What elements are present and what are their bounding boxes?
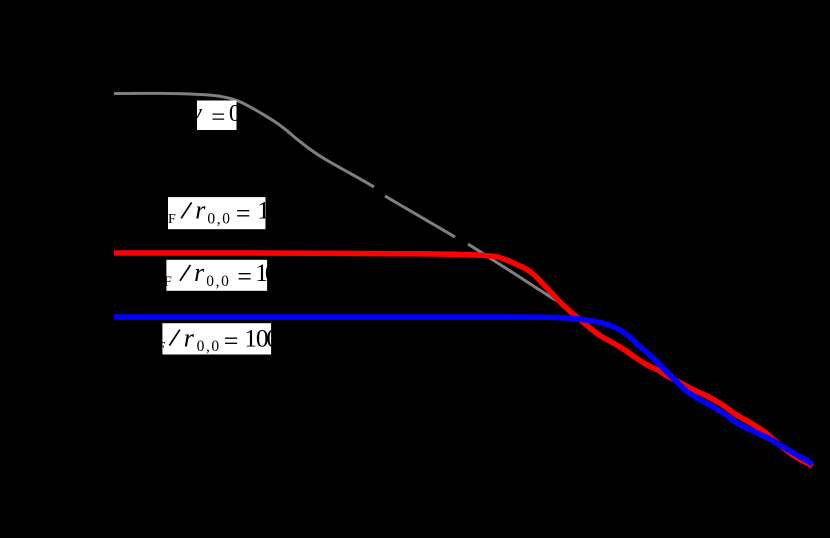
svg-text:1: 1 [257, 196, 270, 225]
svg-text:0: 0 [265, 258, 278, 287]
svg-text:γ: γ [191, 98, 202, 127]
svg-text:F: F [164, 275, 172, 290]
svg-text:0: 0 [266, 323, 279, 352]
svg-text:r: r [195, 196, 206, 225]
svg-text:=: = [224, 326, 239, 355]
svg-text:=: = [236, 199, 251, 228]
svg-text:0,0: 0,0 [207, 210, 231, 227]
svg-text:=: = [211, 104, 225, 131]
svg-text:0,0: 0,0 [206, 273, 230, 290]
svg-text:0: 0 [229, 101, 241, 127]
svg-text:0,0: 0,0 [197, 338, 221, 355]
svg-text:=: = [237, 262, 252, 291]
svg-text:r: r [184, 323, 195, 352]
svg-text:r: r [194, 258, 205, 287]
svg-text:F: F [158, 340, 166, 355]
svg-text:F: F [168, 212, 176, 227]
